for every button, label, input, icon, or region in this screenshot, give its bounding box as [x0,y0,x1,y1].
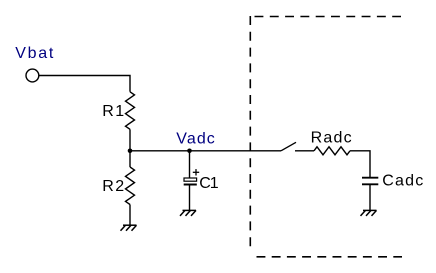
wire [295,150,314,152]
wire [129,205,131,226]
junction node Vadc [187,149,192,154]
svg-text:Vbat: Vbat [15,45,54,62]
resistor R2 [126,167,135,204]
switch S1 [281,142,296,151]
wire [129,151,131,167]
capacitor Cadc [362,178,378,185]
svg-text:R1: R1 [102,103,124,120]
resistor R1 [126,92,135,130]
ground [121,225,137,231]
wire [350,151,370,178]
svg-text:C1: C1 [199,175,219,192]
wire [189,151,191,178]
ground [180,210,196,216]
capacitor C1 [184,169,200,184]
svg-text:Cadc: Cadc [382,173,423,190]
svg-text:Vadc: Vadc [176,130,215,147]
terminal Vbat [26,69,39,82]
wire [130,150,281,152]
svg-text:Radc: Radc [311,129,352,146]
wire [39,76,130,92]
wire [189,186,191,211]
wire [129,129,131,151]
svg-text:R2: R2 [102,178,124,195]
ground [361,210,377,216]
junction node R1/R2 [128,149,133,154]
wire [369,184,371,210]
ADC boundary dashed box [250,16,402,257]
resistor Radc [314,147,350,155]
